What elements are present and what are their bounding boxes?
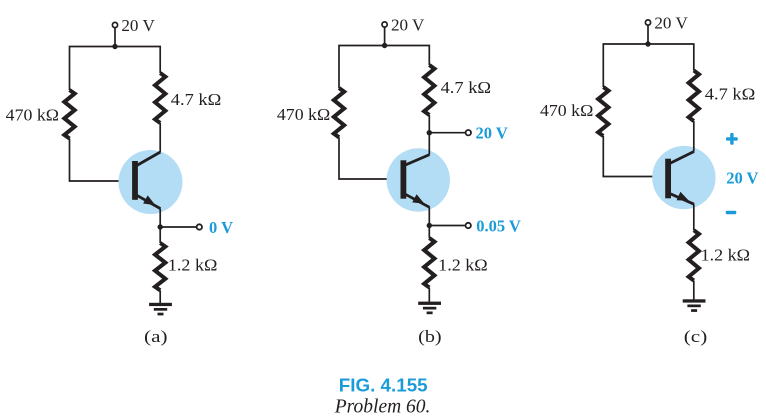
- svg-text:20 V: 20 V: [391, 16, 424, 35]
- wire top rail (a): [70, 47, 161, 91]
- terminal collector (b): [466, 130, 471, 135]
- wire to ground (b): [428, 288, 430, 304]
- transistor Q (a) emitter arrowhead: [143, 195, 155, 205]
- svg-text:1.2 kΩ: 1.2 kΩ: [701, 245, 751, 264]
- wire emitter (c): [693, 204, 695, 230]
- svg-text:4.7 kΩ: 4.7 kΩ: [705, 85, 756, 104]
- wire collector tap (b): [429, 132, 465, 134]
- wire top rail (c): [603, 44, 694, 87]
- svg-text:470 kΩ: 470 kΩ: [540, 101, 593, 120]
- svg-text:(b): (b): [418, 327, 442, 346]
- supply terminal 20 V (c): [645, 20, 650, 44]
- node emitter tap (b): [427, 223, 432, 228]
- resistor 4.7 kOhm collector (a): [155, 73, 165, 123]
- svg-text:1.2 kΩ: 1.2 kΩ: [168, 256, 218, 275]
- transistor Q (a) base bar: [132, 161, 138, 200]
- wire emitter (b): [428, 207, 430, 238]
- transistor Q (a) collector lead: [135, 152, 160, 167]
- svg-text:0 V: 0 V: [209, 218, 233, 237]
- transistor Q (b) highlight circle: [387, 148, 450, 211]
- resistor 4.7 kOhm collector (c): [689, 71, 699, 122]
- svg-text:(c): (c): [684, 327, 708, 346]
- ground (b): [418, 302, 441, 315]
- circuit (b): [277, 16, 521, 347]
- svg-text:20 V: 20 V: [726, 169, 758, 188]
- label + plus VCE (c): [726, 133, 738, 145]
- wire base lead (a): [70, 139, 133, 182]
- resistor 1.2 kOhm emitter (c): [689, 230, 699, 280]
- transistor Q (b) emitter lead: [403, 193, 429, 207]
- node junction at rail (b): [382, 43, 387, 48]
- svg-text:1.2 kΩ: 1.2 kΩ: [438, 255, 488, 274]
- svg-text:20 V: 20 V: [654, 14, 687, 33]
- svg-text:20 V: 20 V: [121, 16, 154, 35]
- resistor 1.2 kOhm emitter (b): [424, 238, 434, 288]
- svg-text:4.7 kΩ: 4.7 kΩ: [441, 78, 492, 97]
- resistor 4.7 kOhm collector (b): [424, 65, 434, 115]
- ground (c): [683, 299, 706, 312]
- supply terminal 20 V (b): [382, 22, 387, 46]
- resistor 1.2 kOhm emitter (a): [155, 243, 165, 290]
- transistor Q (b) collector lead: [403, 155, 429, 166]
- label minus VCE (c): [726, 211, 737, 214]
- svg-text:4.7 kΩ: 4.7 kΩ: [171, 90, 222, 109]
- wire base lead (c): [603, 136, 665, 177]
- wire top rail (b): [339, 46, 429, 89]
- wire emitter (a): [159, 209, 161, 243]
- svg-text:(a): (a): [144, 327, 168, 346]
- resistor 470 kOhm base bias (c): [598, 87, 608, 136]
- svg-text:470 kΩ: 470 kΩ: [6, 106, 59, 125]
- svg-text:0.05 V: 0.05 V: [476, 217, 521, 236]
- transistor Q (c) emitter lead: [668, 193, 694, 204]
- svg-text:20 V: 20 V: [476, 124, 508, 143]
- wire collector (a): [159, 123, 161, 152]
- transistor Q (c) base bar: [665, 159, 671, 199]
- transistor Q (a) emitter lead: [135, 194, 160, 208]
- resistor 470 kOhm base bias (a): [64, 90, 74, 139]
- wire emitter tap (a): [160, 226, 196, 228]
- terminal emitter (b): [466, 223, 471, 228]
- wire collector (c): [693, 121, 695, 152]
- wire emitter tap (b): [429, 225, 465, 227]
- wire collector (b): [428, 115, 430, 155]
- node collector tap (b): [427, 130, 432, 135]
- circuit (c): [540, 14, 759, 347]
- svg-text:FIG. 4.155: FIG. 4.155: [339, 375, 428, 396]
- wire to ground (c): [693, 281, 695, 301]
- node emitter tap (a): [158, 224, 163, 229]
- wire base lead (b): [339, 137, 401, 179]
- transistor Q (c) emitter arrowhead: [677, 192, 689, 201]
- wire to ground (a): [159, 290, 161, 304]
- terminal emitter (a): [197, 224, 202, 229]
- svg-text:Problem 60.: Problem 60.: [334, 397, 431, 418]
- supply terminal 20 V (a): [112, 22, 117, 46]
- transistor Q (a) highlight circle: [119, 150, 183, 214]
- transistor Q (b) base bar: [401, 160, 407, 198]
- ground (a): [149, 303, 172, 316]
- resistor 470 kOhm base bias (b): [334, 88, 344, 137]
- circuit (a): [6, 16, 233, 346]
- transistor Q (c) collector lead: [668, 152, 694, 165]
- node junction at rail (c): [645, 41, 650, 46]
- transistor Q (b) emitter arrowhead: [412, 194, 424, 204]
- transistor Q (c) highlight circle: [652, 146, 715, 209]
- svg-text:470 kΩ: 470 kΩ: [277, 105, 330, 124]
- node junction at rail (a): [112, 44, 117, 49]
